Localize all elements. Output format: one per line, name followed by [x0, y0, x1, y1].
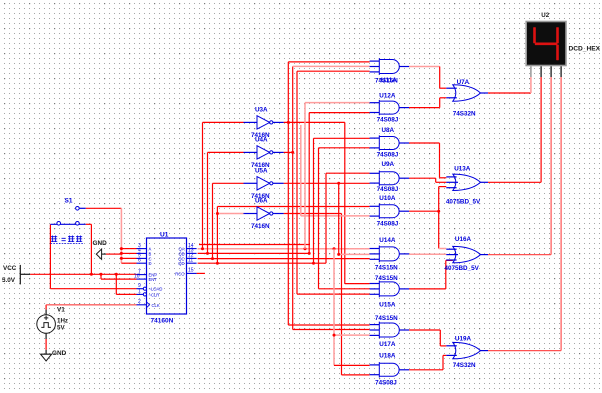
svg-text:1: 1: [138, 289, 141, 295]
svg-text:74S08J: 74S08J: [377, 117, 399, 124]
wire VCC rail to ENP/ENT/~CLR: [30, 273, 136, 295]
wire net QA (pink) U1.QA to U14A input A, taps: [198, 247, 370, 250]
svg-text:74S08J: 74S08J: [377, 221, 399, 228]
wire U12A output to U7A input 2: [409, 98, 446, 108]
svg-text:74S08J: 74S08J: [377, 152, 399, 159]
wire net A' U3A out to bus: [284, 121, 370, 284]
inverter U3A 7416N: [244, 106, 284, 138]
or-gate U13A 4075BD_5V (3-input): [446, 166, 488, 206]
wire QC to U5A input: [213, 183, 244, 258]
and-gate U10A 74S08J: [370, 195, 410, 228]
svg-text:GND: GND: [52, 350, 67, 357]
wire U9A output to U13A input 2: [409, 178, 446, 182]
svg-text:1Hz: 1Hz: [57, 318, 68, 325]
and-gate U14A 74S15N (3-input): [370, 237, 410, 271]
source V1 clock 1Hz 5V: [37, 307, 68, 340]
svg-text:6: 6: [138, 257, 141, 263]
svg-text:U9A: U9A: [382, 161, 395, 168]
svg-text:74S32N: 74S32N: [453, 362, 476, 369]
svg-text:VCC: VCC: [3, 265, 17, 272]
svg-text:U12A: U12A: [379, 92, 396, 99]
ground GND arrow (digital ground): [93, 240, 108, 259]
power VCC 5.0V: [2, 265, 30, 285]
wire bus B5 (pink): QA to U12A input A: [305, 103, 370, 249]
wire bus B2: U11A input 2 / U17A input 2: [291, 66, 369, 329]
wire QB to U4A input: [208, 152, 244, 253]
and-gate U18A 74S08J: [370, 352, 410, 386]
svg-text:U6A: U6A: [255, 198, 268, 205]
wire bus B3: U11A input 3 / U15A input 3: [297, 71, 370, 294]
wire U10A output to U13A input 3 and U16A input 1: [409, 187, 446, 249]
svg-text:U5A: U5A: [255, 167, 268, 174]
wire bus B11: C' to U14A input B: [337, 183, 369, 256]
svg-text:74S08J: 74S08J: [375, 379, 397, 386]
or-gate U19A 74S32N: [446, 335, 488, 369]
and-gate U9A 74S08J: [370, 161, 410, 193]
U1 pin names: [149, 247, 186, 308]
wire S1 bottom-right terminal to VCC rail: [86, 224, 92, 274]
svg-text:CLK: CLK: [152, 303, 160, 308]
counter U1 74160N: [147, 238, 187, 314]
svg-text:74S32N: 74S32N: [453, 111, 476, 118]
wire V1 clock to U1 CLK: [46, 305, 136, 310]
svg-text:~LOAD: ~LOAD: [149, 287, 163, 292]
wire U13A output to display pin 2: [488, 77, 541, 182]
wire bus B8: U8A input B / U15A input 2: [319, 148, 370, 289]
svg-text:U14A: U14A: [379, 237, 396, 244]
wire U19A output to display pin 4: [488, 77, 561, 351]
svg-text:V1: V1: [57, 307, 65, 314]
svg-text:U7A: U7A: [457, 79, 470, 86]
inverter U5A 7416N: [244, 167, 284, 200]
svg-text:7416N: 7416N: [251, 223, 270, 230]
wire S1 top terminal / ground bus to U1 data inputs A-D: [86, 208, 137, 263]
svg-text:U19A: U19A: [455, 335, 472, 342]
inverter U4A 7416N: [244, 136, 284, 169]
svg-text:U15A: U15A: [379, 302, 396, 309]
svg-text:RCO: RCO: [175, 271, 185, 276]
svg-text:U2: U2: [541, 12, 549, 19]
and-gate U17A 74S15N (3-input): [370, 315, 410, 348]
svg-text:U17A: U17A: [379, 341, 396, 348]
wire U15A output to U16A input 3: [409, 260, 453, 289]
svg-text:5V: 5V: [57, 325, 65, 332]
wire U7A output to display pin 1: [488, 77, 531, 93]
svg-text:DCD_HEX: DCD_HEX: [569, 46, 601, 53]
or-gate U16A 4075BD_5V (3-input): [445, 236, 489, 272]
svg-text:74S15N: 74S15N: [375, 315, 398, 322]
and-gate U11A 74S15N (3-input): [370, 58, 410, 84]
svg-text:U16A: U16A: [455, 236, 472, 243]
svg-text:10: 10: [134, 273, 140, 279]
wire S1 bottom-left terminal to ~LOAD: [50, 224, 136, 288]
svg-text:4075BD_5V: 4075BD_5V: [445, 265, 480, 272]
wire U17A output to U19A input 1: [409, 330, 446, 346]
wire U11A output to U7A input 1: [409, 67, 446, 89]
wire bus B9: QD row to U9A input A: [326, 173, 370, 263]
wire U8A output to U13A input 1: [409, 143, 446, 178]
svg-text:74S15N: 74S15N: [375, 275, 398, 282]
display pin stubs: [531, 66, 561, 77]
svg-text:U1: U1: [160, 232, 169, 239]
wire bus B10 (pink): QA to U17A input 3 / U18A input A: [333, 249, 370, 366]
and-gate U15A 74S15N (3-input): [370, 275, 410, 309]
wire U18A output to U19A input 2: [409, 355, 446, 369]
svg-text:~CLR: ~CLR: [149, 292, 160, 297]
U1 pin numbers: [134, 243, 194, 305]
ground GND at V1: [41, 350, 67, 361]
wire bus B1: U11A input 1 / U17A input 1: [288, 62, 369, 325]
svg-text:U4A: U4A: [255, 136, 268, 143]
wire QD vertical, U6A input and U10A input A: [216, 207, 370, 264]
svg-text:74160N: 74160N: [151, 318, 174, 325]
wire net QC U1.QC to U14A input C: [198, 257, 370, 260]
svg-text:U3A: U3A: [255, 106, 268, 113]
svg-text:S1: S1: [65, 198, 73, 205]
wire net D' U6A out to U18A input: [284, 214, 370, 375]
svg-text:15: 15: [188, 268, 194, 274]
wire V1 to GND symbol: [45, 339, 47, 350]
wire GND arrow to node B: [106, 253, 122, 255]
and-gate U12A 74S08J: [370, 92, 410, 123]
svg-text:U10A: U10A: [379, 195, 396, 202]
svg-text:74S08J: 74S08J: [377, 186, 399, 193]
svg-text:U8A: U8A: [382, 127, 395, 134]
svg-text:GND: GND: [93, 240, 108, 247]
wire U16A output to display pin 3: [488, 77, 551, 255]
svg-text:4075BD_5V: 4075BD_5V: [446, 198, 481, 205]
svg-text:2: 2: [138, 299, 141, 305]
wire bus B4 (pink): U10A input B: [301, 125, 370, 216]
or-gate U7A 74S32N: [446, 79, 488, 118]
wire bus B7: QD to U8A input A: [314, 138, 370, 263]
svg-text:U18A: U18A: [379, 352, 396, 359]
svg-text:5.0V: 5.0V: [2, 277, 16, 284]
svg-text:ENT: ENT: [149, 277, 158, 282]
and-gate U8A 74S08J: [370, 127, 410, 158]
wire net C' U5A out to U9A input: [284, 182, 370, 185]
wire QA to U3A input: [203, 122, 244, 248]
svg-text:QD: QD: [178, 261, 184, 266]
svg-text:11: 11: [188, 257, 193, 263]
wire net QB U1.QB row: [198, 252, 311, 255]
wire net RCO row: [197, 245, 310, 274]
svg-text:U13A: U13A: [454, 166, 471, 173]
inverter U6A 7416N: [244, 198, 284, 231]
display U2 DCD_HEX seven-segment showing 4: [525, 12, 600, 77]
wire bus B6: QB to U12A input B: [309, 113, 369, 254]
svg-text:U11A: U11A: [381, 77, 397, 84]
svg-text:D: D: [149, 261, 152, 266]
switch S1 (Key = Space): [50, 198, 85, 244]
wire net B' U4A out: [284, 151, 293, 153]
wire net QD U1.QD row: [198, 262, 326, 265]
wire U14A output to U16A input 2: [409, 253, 446, 255]
svg-text:74S15N: 74S15N: [375, 264, 398, 271]
